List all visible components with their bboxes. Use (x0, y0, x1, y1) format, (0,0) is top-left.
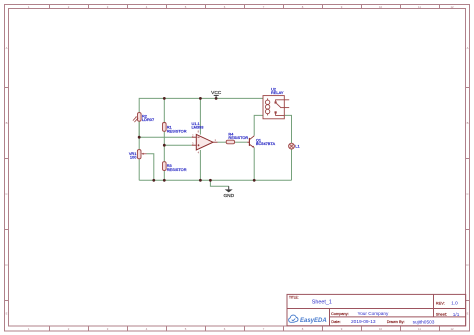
svg-text:Drawn By:: Drawn By: (387, 319, 405, 324)
svg-text:12: 12 (450, 327, 454, 331)
svg-text:LDR07: LDR07 (142, 117, 154, 122)
svg-text:100: 100 (130, 154, 137, 159)
svg-text:Sheet_1: Sheet_1 (312, 299, 332, 305)
svg-text:10: 10 (379, 327, 383, 331)
svg-text:D: D (5, 263, 7, 267)
svg-text:4: 4 (146, 327, 148, 331)
svg-text:2: 2 (68, 327, 70, 331)
svg-text:Sheet:: Sheet: (436, 312, 447, 317)
svg-text:sujith0503: sujith0503 (413, 319, 435, 325)
svg-text:11: 11 (418, 5, 421, 9)
svg-text:RESISTOR: RESISTOR (167, 128, 187, 133)
svg-text:3: 3 (107, 327, 109, 331)
svg-text:BC547BTA: BC547BTA (256, 141, 276, 146)
svg-text:A: A (467, 46, 469, 50)
svg-text:4: 4 (198, 150, 200, 154)
svg-text:11: 11 (418, 327, 421, 331)
svg-text:L1: L1 (295, 143, 299, 148)
svg-text:6: 6 (224, 327, 226, 331)
svg-text:TITLE:: TITLE: (289, 295, 299, 299)
svg-text:RESISTOR: RESISTOR (167, 167, 187, 172)
svg-text:Date:: Date: (331, 319, 340, 324)
svg-text:GND: GND (223, 193, 234, 199)
svg-text:10: 10 (379, 5, 383, 9)
svg-text:1/1: 1/1 (453, 312, 460, 317)
svg-text:9: 9 (341, 327, 343, 331)
svg-text:LM393: LM393 (192, 125, 204, 130)
svg-text:Company:: Company: (331, 311, 349, 316)
svg-text:5: 5 (185, 327, 187, 331)
svg-text:8: 8 (198, 130, 200, 134)
svg-text:12: 12 (450, 5, 454, 9)
svg-text:E: E (6, 312, 8, 316)
svg-text:RESISTOR: RESISTOR (228, 135, 248, 140)
svg-text:REV:: REV: (436, 301, 445, 306)
svg-text:1.0: 1.0 (451, 301, 458, 306)
svg-text:Your Company: Your Company (358, 311, 389, 316)
svg-text:7: 7 (263, 327, 265, 331)
svg-text:RELAY: RELAY (271, 90, 284, 95)
svg-text:1: 1 (215, 138, 217, 142)
svg-text:VCC: VCC (211, 90, 222, 96)
svg-text:C: C (466, 192, 468, 196)
svg-text:1: 1 (28, 327, 30, 331)
svg-text:A: A (6, 46, 8, 50)
svg-text:C: C (5, 192, 7, 196)
svg-text:2019-09-13: 2019-09-13 (351, 319, 376, 325)
svg-text:8: 8 (302, 327, 304, 331)
svg-text:B: B (467, 121, 469, 125)
svg-text:E: E (467, 312, 469, 316)
svg-text:EasyEDA: EasyEDA (300, 318, 327, 324)
svg-text:D: D (466, 263, 468, 267)
svg-text:B: B (6, 121, 8, 125)
